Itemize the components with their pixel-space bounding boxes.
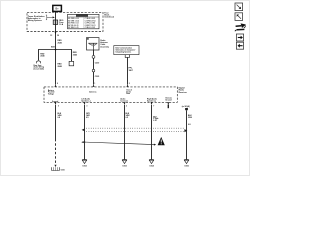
- ground G305: [184, 159, 189, 161]
- svg-text:B1 RED 0.8 J2: B1 RED 0.8 J2: [68, 18, 79, 20]
- svg-text:3: 3: [86, 105, 87, 107]
- svg-text:58: 58: [57, 35, 59, 37]
- svg-text:C200: C200: [95, 63, 100, 65]
- svg-text:C5 BLU 0.5 K3: C5 BLU 0.5 K3: [85, 27, 96, 29]
- toolbar icon previous: [236, 42, 243, 49]
- toolbar icon zoom-out: [235, 13, 243, 21]
- splice S201: [55, 49, 57, 51]
- wire right speaker: [151, 105, 153, 160]
- svg-text:2040: 2040: [40, 55, 44, 58]
- radio pin labels top: [48, 89, 55, 96]
- wire left speaker: [84, 105, 86, 160]
- svg-text:2500: 2500: [188, 117, 192, 119]
- svg-text:S201: S201: [51, 47, 55, 49]
- svg-text:5: 5: [58, 105, 59, 107]
- svg-text:0.8: 0.8: [188, 124, 191, 126]
- svg-text:C305: C305: [95, 76, 100, 78]
- svg-text:Antenna: Antenna: [89, 90, 96, 93]
- svg-text:2040: 2040: [58, 65, 62, 68]
- svg-text:2040: 2040: [73, 53, 77, 56]
- data schematics reference box: [114, 46, 139, 55]
- wire BLK 2500: [186, 110, 188, 159]
- rear seat audio connector: [36, 61, 40, 64]
- toolbar icon pan arrow: [235, 23, 246, 31]
- svg-text:Underhood: Underhood: [104, 16, 114, 18]
- svg-text:(w/ UQA): (w/ UQA): [182, 105, 190, 108]
- svg-text:C2: C2: [50, 35, 52, 37]
- svg-text:Class 2: Class 2: [126, 90, 132, 92]
- connector shell: [69, 61, 74, 65]
- fuse block B+ feed box: [53, 5, 62, 11]
- ground G303: [122, 159, 127, 161]
- fuse block usage table: [68, 14, 99, 29]
- radio dashed box: [44, 87, 177, 102]
- svg-text:G305: G305: [184, 166, 188, 168]
- inline connector C200: [92, 56, 95, 59]
- wire RED 2040 upper: [55, 24, 57, 49]
- svg-text:0.35: 0.35: [153, 120, 156, 122]
- svg-text:(Convertible): (Convertible): [34, 67, 45, 70]
- svg-text:Assembly: Assembly: [100, 45, 109, 48]
- fuse RDO: [53, 20, 58, 24]
- svg-text:Wiring Systems: Wiring Systems: [28, 19, 42, 22]
- svg-text:8: 8: [57, 83, 58, 85]
- svg-text:Speaker (-): Speaker (-): [81, 100, 90, 102]
- svg-text:C3 PPL 0.8 K6: C3 PPL 0.8 K6: [85, 23, 96, 25]
- svg-text:Ground: Ground: [165, 100, 171, 102]
- wire to S202 branch: [56, 50, 72, 62]
- toolbar icon zoom-in: [235, 3, 243, 11]
- wire to rear seat audio branch: [39, 50, 56, 61]
- ground G304: [149, 159, 154, 161]
- antenna assembly: [87, 38, 100, 50]
- svg-text:2040: 2040: [58, 41, 62, 44]
- bottom pins: [54, 102, 56, 104]
- splice pack ground: [54, 165, 56, 167]
- svg-text:2: 2: [129, 83, 130, 85]
- wire audio common: [124, 105, 126, 160]
- power distribution reference note: [28, 15, 46, 22]
- toolbar icon next: [236, 34, 243, 41]
- svg-text:C1 BLK 0.8 K2: C1 BLK 0.8 K2: [85, 18, 96, 20]
- connector pin shell: [125, 55, 129, 58]
- svg-text:0.8: 0.8: [58, 117, 61, 119]
- antenna lead wire: [93, 50, 95, 85]
- svg-text:1: 1: [94, 83, 95, 85]
- svg-text:0.5: 0.5: [126, 117, 129, 119]
- svg-text:G303: G303: [122, 166, 126, 168]
- svg-text:Voltage: Voltage: [48, 93, 54, 96]
- ground G302: [82, 159, 87, 161]
- svg-text:G304: G304: [149, 165, 153, 168]
- svg-text:0.5: 0.5: [86, 117, 89, 119]
- svg-text:Receiver: Receiver: [179, 92, 187, 94]
- wire PPL 1807: [127, 57, 129, 84]
- wire RED 2040 lower: [55, 50, 57, 85]
- svg-text:2: 2: [126, 105, 127, 107]
- wire B+ to fuse: [55, 11, 57, 20]
- svg-text:G302: G302: [82, 166, 86, 168]
- svg-text:G301: G301: [61, 170, 65, 172]
- chassis ground stub pin: [167, 102, 169, 104]
- connector C2 crossing: [55, 32, 57, 35]
- caution triangle: [158, 137, 165, 145]
- inline connector C305: [92, 69, 95, 72]
- twisted pair dotted leads: [86, 127, 184, 129]
- border frame: [1, 1, 250, 176]
- underhood fuse block dashed box: [27, 12, 103, 31]
- svg-text:B3 PNK 0.5 J1: B3 PNK 0.5 J1: [68, 23, 79, 25]
- svg-text:Speaker (-): Speaker (-): [147, 100, 156, 102]
- underhood fuse block label: [104, 12, 114, 18]
- svg-text:1807: 1807: [129, 70, 133, 72]
- svg-text:10 A: 10 A: [59, 23, 64, 26]
- reference bracket arrow: [46, 15, 53, 20]
- radio label: [179, 86, 187, 93]
- ground wire BLK 1450: [55, 105, 57, 139]
- note leader line: [83, 142, 154, 145]
- svg-text:Common: Common: [120, 100, 128, 102]
- svg-text:7: 7: [153, 105, 154, 107]
